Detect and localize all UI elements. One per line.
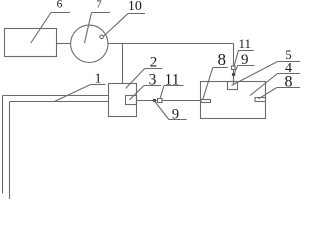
label 4 bbox=[250, 61, 300, 96]
label 5 bbox=[232, 48, 301, 86]
svg-text:6: 6 bbox=[57, 0, 63, 11]
wire: vertical pipe into tank notch bbox=[233, 44, 235, 85]
valve dot (9) on middle pipe bbox=[153, 99, 156, 102]
svg-text:10: 10 bbox=[128, 0, 142, 14]
double pipe 1: lower horizontal bbox=[10, 101, 109, 103]
svg-text:7: 7 bbox=[96, 0, 101, 10]
svg-text:9: 9 bbox=[241, 52, 249, 68]
svg-text:5: 5 bbox=[285, 48, 291, 62]
label 10 bbox=[103, 0, 145, 36]
valve square (11) on middle pipe bbox=[158, 99, 163, 103]
wire: top pipe from pump to right valve bbox=[108, 43, 234, 45]
port 10 (small circle on pump) bbox=[100, 35, 104, 39]
double pipe 1: outer vertical bbox=[2, 96, 4, 194]
double pipe 1: upper horizontal bbox=[3, 95, 109, 97]
label 6 bbox=[31, 0, 70, 43]
double pipe 1: inner vertical bbox=[9, 102, 11, 200]
label 3 bbox=[130, 71, 162, 100]
wire: pipe from box 2 to tank 4 bbox=[137, 100, 201, 102]
svg-text:11: 11 bbox=[239, 36, 252, 51]
label 7 bbox=[85, 0, 111, 43]
svg-text:2: 2 bbox=[150, 54, 158, 70]
svg-text:1: 1 bbox=[95, 72, 102, 87]
svg-text:9: 9 bbox=[172, 107, 179, 123]
box 6 (feed unit) bbox=[5, 29, 57, 57]
svg-text:11: 11 bbox=[165, 72, 180, 89]
label 2 bbox=[126, 54, 163, 88]
wire: vertical drop to box 2 bbox=[122, 44, 124, 84]
svg-text:8: 8 bbox=[218, 50, 227, 69]
label 11 (right) bbox=[234, 36, 254, 66]
label 9 (middle) bbox=[155, 102, 187, 123]
svg-text:8: 8 bbox=[285, 74, 293, 91]
label 8 (left) bbox=[203, 50, 228, 99]
label 8 (right) bbox=[259, 74, 301, 99]
valve dot (9) on vertical pipe bbox=[232, 73, 236, 77]
pump circle 7 bbox=[71, 25, 108, 62]
notch 5 (inlet well at tank top) bbox=[228, 82, 238, 90]
wire: box 6 to pump 7 bbox=[57, 43, 71, 45]
tank 4 bbox=[201, 82, 266, 119]
svg-text:3: 3 bbox=[149, 71, 157, 88]
box 3 (inner outlet) bbox=[126, 96, 137, 105]
valve square (11) on vertical pipe bbox=[232, 66, 236, 70]
label 1 bbox=[55, 72, 106, 102]
slot 8 (right overflow port) bbox=[255, 98, 266, 102]
slot 8 (left overflow port) bbox=[201, 100, 211, 103]
label 9 (right) bbox=[234, 52, 254, 73]
label 11 (middle) bbox=[160, 72, 183, 98]
box 2 (mixing unit) bbox=[109, 84, 137, 117]
